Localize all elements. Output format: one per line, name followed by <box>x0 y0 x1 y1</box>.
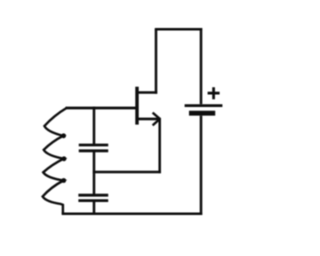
wire top horizontal <box>155 28 202 31</box>
Q1 base bar <box>135 87 138 125</box>
transistor Q1 <box>137 87 160 126</box>
Q1 emitter arrowhead <box>153 113 161 126</box>
inductor loop junction dot 3 <box>61 178 66 183</box>
battery negative plate <box>189 111 215 116</box>
battery plus sign <box>208 87 220 99</box>
wire battery negative lead <box>200 116 203 215</box>
wire capacitor C2 to bottom <box>93 202 96 215</box>
wire collector riser <box>155 29 158 93</box>
wire top node (inductor top to base) <box>66 107 139 110</box>
Q1 emitter lead with arrow <box>137 118 160 121</box>
C2 top plate <box>78 194 108 197</box>
C2 bottom plate <box>78 199 108 202</box>
wire capacitor C1 to node <box>93 152 96 194</box>
Q1 collector tap <box>137 91 157 94</box>
wire capacitor branch upper <box>93 107 96 144</box>
inductor loop junction dot 1 <box>61 133 66 138</box>
inductor loop junction dot 2 <box>62 156 67 161</box>
inductor L1 <box>43 108 67 214</box>
wire bottom horizontal <box>62 212 203 215</box>
battery B1 <box>185 87 223 113</box>
capacitor C1 <box>79 145 108 151</box>
wire middle node (emitter to capacitor junction) <box>93 171 161 174</box>
C1 top plate <box>79 144 108 147</box>
wire emitter drop <box>158 118 161 173</box>
C1 bottom plate <box>79 149 108 152</box>
battery positive plate <box>185 104 223 107</box>
wire battery positive lead <box>200 28 203 104</box>
capacitor C2 <box>78 195 108 200</box>
